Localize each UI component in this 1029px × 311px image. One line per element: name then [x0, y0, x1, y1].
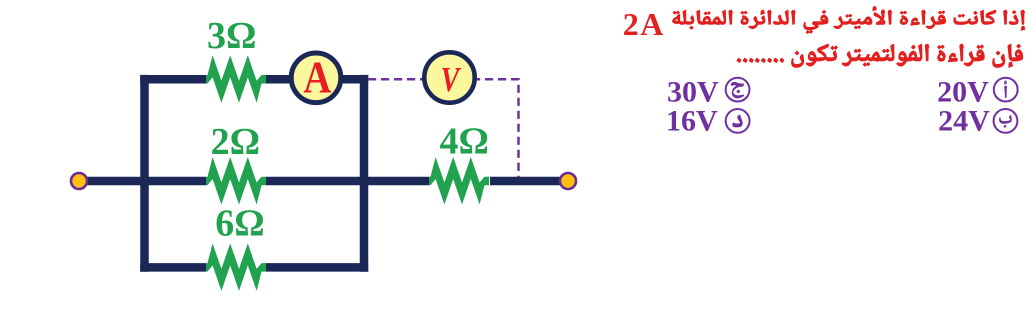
svg-text:A: A: [303, 53, 331, 104]
wire: right vertical bus of parallel block: [360, 75, 369, 272]
option C letter jeem: [731, 82, 744, 98]
svg-text:2A: 2A: [623, 6, 665, 42]
option D circle marker: [726, 109, 750, 133]
terminal node right: [560, 173, 576, 189]
wire: top branch between ammeter and right bus: [340, 75, 368, 84]
wire: middle branch from 2-ohm resistor through right bus to 4-ohm resistor: [266, 177, 429, 186]
svg-text:30V: 30V: [667, 75, 719, 108]
wire: bottom branch left segment: [140, 263, 206, 272]
voltmeter U2 body: [424, 52, 474, 102]
svg-text:V: V: [441, 60, 462, 99]
svg-text:2Ω: 2Ω: [211, 121, 260, 163]
resistor R2 2-ohm zigzag: [206, 157, 266, 205]
resistor R3 6-ohm zigzag: [206, 243, 266, 291]
option C circle marker: [726, 78, 750, 102]
svg-text:24V: 24V: [938, 105, 990, 138]
svg-text:4Ω: 4Ω: [439, 120, 488, 162]
wire: bottom branch right segment: [266, 263, 368, 272]
wire: left vertical bus of parallel block: [140, 75, 149, 272]
svg-text:3Ω: 3Ω: [207, 15, 256, 57]
option B circle marker: [994, 109, 1018, 133]
wire: top branch between 3-ohm resistor and ammeter: [266, 75, 292, 84]
svg-text:6Ω: 6Ω: [215, 203, 264, 245]
wire: right lead from 4-ohm resistor to right terminal: [490, 177, 560, 186]
resistor R1 3-ohm zigzag: [206, 55, 266, 103]
wire: left lead from terminal to parallel block: [87, 177, 206, 186]
svg-text:20V: 20V: [937, 75, 989, 108]
option D letter dal: [732, 115, 742, 128]
ammeter U1 body: [291, 53, 341, 103]
option A circle marker: [994, 78, 1018, 102]
option B letter ba: [999, 115, 1012, 128]
wire: top branch left segment: [140, 75, 206, 84]
svg-text:16V: 16V: [666, 105, 718, 138]
dashed voltmeter leads across 4-ohm resistor: [368, 79, 519, 177]
question line 2 arabic: then the voltmeter reading is: [737, 44, 1024, 68]
resistor R4 4-ohm zigzag: [429, 157, 489, 205]
option A letter alif: [1004, 81, 1007, 98]
question line 1 arabic: if the ammeter reading in the opposite circuit is: [672, 6, 1025, 34]
terminal node left: [71, 173, 87, 189]
